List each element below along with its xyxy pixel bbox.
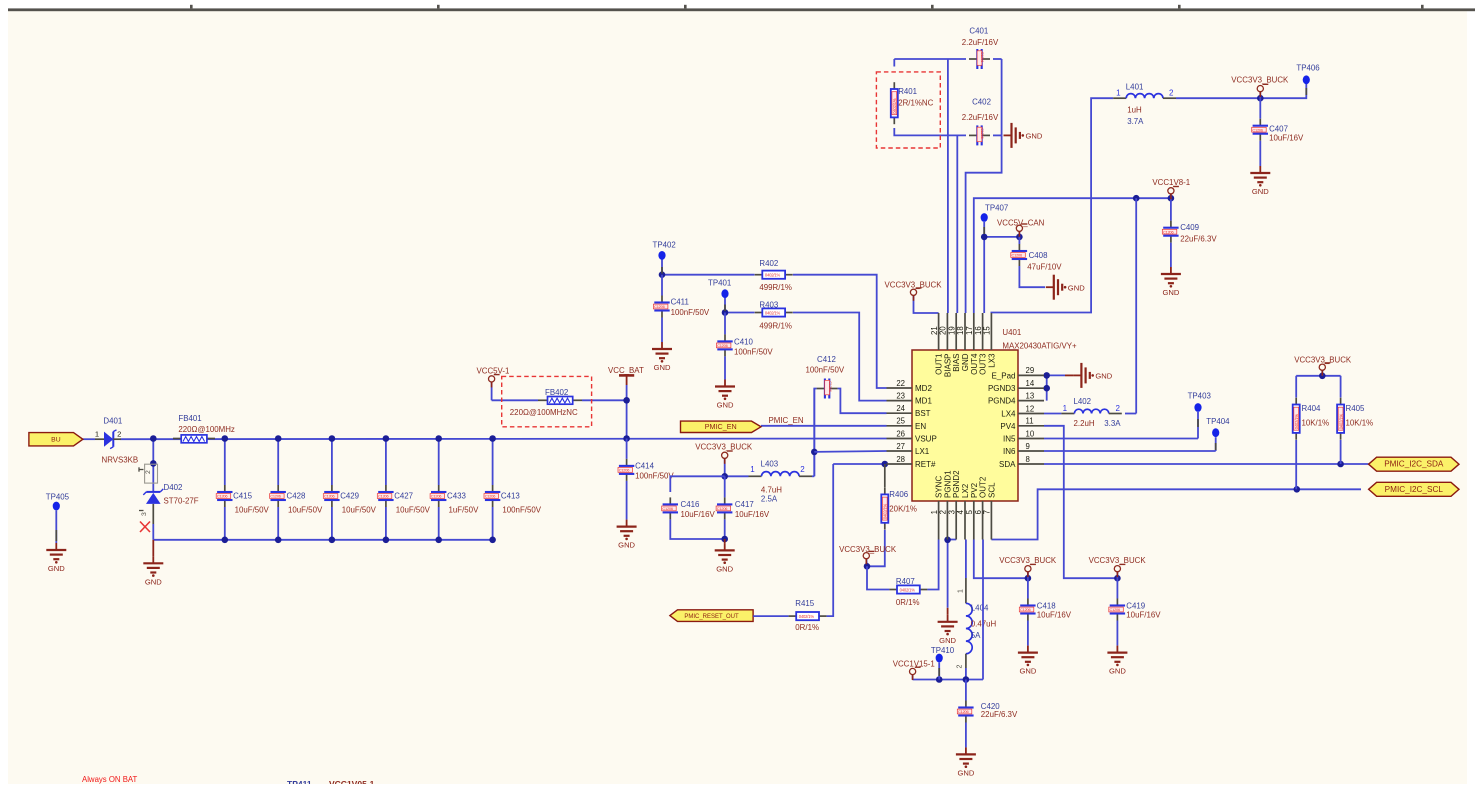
svg-text:C1206: C1206 [717,343,728,348]
svg-text:1: 1 [958,589,965,593]
svg-text:C1206: C1206 [378,494,389,499]
svg-text:1uH: 1uH [1127,105,1142,114]
svg-text:C428: C428 [287,492,306,501]
svg-text:SYNC: SYNC [935,476,944,498]
svg-text:NRVS3KB: NRVS3KB [102,456,139,465]
svg-text:TP406: TP406 [1296,64,1320,73]
svg-text:2: 2 [1115,404,1120,413]
svg-text:R406: R406 [889,490,908,499]
svg-text:24: 24 [896,404,905,413]
svg-text:1: 1 [95,430,99,439]
svg-text:3.7A: 3.7A [1127,117,1144,126]
svg-text:L402: L402 [1074,397,1092,406]
svg-text:TP403: TP403 [1188,392,1212,401]
svg-text:11: 11 [1026,417,1034,426]
svg-text:R407: R407 [896,577,915,586]
svg-text:D402: D402 [164,483,183,492]
svg-text:2.2uF/16V: 2.2uF/16V [962,38,999,47]
svg-text:C1206: C1206 [1012,253,1023,258]
svg-text:1: 1 [930,510,939,514]
svg-text:C1206: C1206 [485,494,496,499]
svg-text:20: 20 [939,326,948,335]
svg-text:C402: C402 [972,98,991,107]
svg-text:10K/1%: 10K/1% [1346,418,1374,427]
svg-text:1: 1 [1116,89,1121,98]
svg-text:1: 1 [1063,404,1068,413]
svg-text:U401: U401 [1002,328,1021,337]
svg-text:GND: GND [957,768,974,777]
svg-text:3: 3 [947,510,956,514]
svg-text:C1206: C1206 [431,494,442,499]
svg-text:10: 10 [1026,429,1035,438]
svg-text:C407: C407 [1269,125,1288,134]
svg-text:10uF/50V: 10uF/50V [288,506,323,515]
svg-text:2: 2 [939,510,948,514]
svg-text:PGND1: PGND1 [943,470,952,498]
svg-text:PGND3: PGND3 [988,384,1016,393]
svg-text:2.5A: 2.5A [761,495,778,504]
svg-text:TP404: TP404 [1206,417,1230,426]
svg-text:PMIC_EN: PMIC_EN [705,422,737,431]
svg-text:10uF/50V: 10uF/50V [396,506,431,515]
svg-text:19: 19 [947,326,956,335]
svg-text:VCC3V3_BUCK: VCC3V3_BUCK [1231,75,1289,84]
svg-text:GND: GND [717,401,734,410]
svg-text:7: 7 [983,510,992,514]
svg-text:25: 25 [896,417,905,426]
svg-text:OUT4: OUT4 [970,353,979,375]
svg-text:1uF/50V: 1uF/50V [449,506,480,515]
svg-text:VSUP: VSUP [915,435,937,444]
svg-text:VCC5V-1: VCC5V-1 [477,366,510,375]
svg-text:1: 1 [750,465,755,474]
svg-text:R403: R403 [759,301,778,310]
svg-text:IN5: IN5 [1003,435,1016,444]
svg-text:VCC1V8-1: VCC1V8-1 [1152,178,1190,187]
svg-text:10uF/16V: 10uF/16V [1269,133,1304,142]
svg-text:C1206: C1206 [717,506,728,511]
svg-text:BU: BU [51,437,61,444]
svg-text:29: 29 [1026,366,1035,375]
svg-text:VCC3V3_BUCK: VCC3V3_BUCK [885,281,943,290]
svg-text:MAX20430ATIG/VY+: MAX20430ATIG/VY+ [1002,341,1077,350]
svg-text:IN6: IN6 [1003,447,1016,456]
svg-text:C427: C427 [394,492,413,501]
svg-text:10K/1%: 10K/1% [1302,418,1330,427]
svg-text:FB402: FB402 [545,388,568,397]
svg-text:C429: C429 [340,492,359,501]
svg-text:5: 5 [965,509,974,514]
svg-text:C1206: C1206 [619,468,630,473]
svg-text:GND: GND [1252,187,1269,196]
svg-text:C417: C417 [735,500,754,509]
svg-text:C401: C401 [969,27,988,36]
svg-text:GND: GND [1026,132,1043,141]
svg-text:PGND2: PGND2 [952,470,961,498]
svg-text:R404: R404 [1302,404,1321,413]
svg-text:2.2uF/16V: 2.2uF/16V [962,113,999,122]
svg-text:10uF/16V: 10uF/16V [681,510,716,519]
svg-text:GND: GND [961,353,970,371]
svg-text:C415: C415 [233,492,252,501]
svg-text:C1206: C1206 [654,304,665,309]
svg-text:BST: BST [915,409,931,418]
svg-text:3: 3 [141,512,148,516]
svg-text:C414: C414 [635,461,654,470]
svg-text:12: 12 [1026,404,1035,413]
svg-text:0402/1%: 0402/1% [892,98,897,114]
svg-text:LX3: LX3 [987,353,996,368]
svg-text:2.2uH: 2.2uH [1074,419,1095,428]
svg-text:5A: 5A [971,631,981,640]
svg-text:GND: GND [654,363,671,372]
svg-text:C408: C408 [1029,251,1048,260]
svg-text:SDA: SDA [999,460,1016,469]
svg-text:499R/1%: 499R/1% [759,321,791,330]
svg-text:VCC_BAT: VCC_BAT [608,366,644,375]
svg-text:2: 2 [800,465,805,474]
svg-text:EN: EN [915,422,926,431]
svg-text:C411: C411 [671,298,689,307]
svg-text:GND: GND [48,564,65,573]
svg-text:0402/1%: 0402/1% [883,503,888,519]
svg-text:22uF/6.3V: 22uF/6.3V [1180,234,1217,243]
svg-text:R405: R405 [1346,404,1365,413]
svg-text:2R/1%NC: 2R/1%NC [898,99,933,108]
svg-text:OUT1: OUT1 [935,353,944,375]
svg-text:GND: GND [1095,372,1112,381]
svg-text:C1206: C1206 [1163,229,1174,234]
svg-text:C416: C416 [681,500,700,509]
svg-text:C433: C433 [447,492,466,501]
svg-text:TP402: TP402 [653,241,676,250]
svg-text:TP410: TP410 [931,646,955,655]
svg-text:0402/1%: 0402/1% [1294,414,1299,430]
svg-text:C1206: C1206 [1110,607,1121,612]
svg-text:220Ω@100MHzNC: 220Ω@100MHzNC [510,408,578,417]
svg-text:BIAS: BIAS [952,354,961,372]
svg-text:18: 18 [956,326,965,335]
svg-text:BIASP: BIASP [943,354,952,378]
svg-text:47uF/10V: 47uF/10V [1027,263,1062,272]
svg-text:2: 2 [957,665,964,669]
svg-text:10uF/16V: 10uF/16V [1126,611,1161,620]
svg-text:PMIC_I2C_SCL: PMIC_I2C_SCL [1385,485,1444,494]
svg-text:C1206: C1206 [980,128,985,139]
svg-text:220Ω@100MHz: 220Ω@100MHz [178,425,235,434]
svg-text:4: 4 [956,509,965,514]
svg-text:10uF/50V: 10uF/50V [342,506,377,515]
svg-text:LX2: LX2 [961,483,970,498]
svg-text:MD1: MD1 [915,397,932,406]
svg-text:MD2: MD2 [915,384,932,393]
svg-text:VCC3V3_BUCK: VCC3V3_BUCK [695,442,753,451]
svg-text:TP405: TP405 [46,492,70,501]
svg-text:LX1: LX1 [915,447,930,456]
svg-text:100nF/50V: 100nF/50V [671,308,710,317]
svg-text:21: 21 [930,326,939,335]
svg-text:LX4: LX4 [1001,410,1016,419]
svg-text:ST70-27F: ST70-27F [164,497,199,506]
svg-text:VCC3V3_BUCK: VCC3V3_BUCK [999,556,1057,565]
svg-text:GND: GND [145,577,162,586]
svg-text:RET#: RET# [915,460,936,469]
svg-text:2: 2 [1169,89,1174,98]
svg-text:R402: R402 [759,259,778,268]
svg-text:C1206: C1206 [662,506,673,511]
svg-text:26: 26 [896,429,905,438]
svg-text:0R/1%: 0R/1% [896,598,920,607]
svg-text:GND: GND [1162,288,1179,297]
svg-text:E_Pad: E_Pad [991,371,1015,380]
svg-text:2: 2 [145,470,152,474]
svg-text:C1206: C1206 [1020,607,1031,612]
svg-text:9: 9 [1026,442,1030,451]
svg-text:14: 14 [1026,379,1035,388]
svg-text:C412: C412 [817,355,836,364]
svg-text:TP407: TP407 [985,204,1008,213]
svg-text:R401: R401 [898,87,917,96]
svg-text:C409: C409 [1180,223,1199,232]
svg-text:28: 28 [896,455,905,464]
svg-text:22: 22 [896,379,905,388]
svg-text:6: 6 [974,510,983,514]
svg-text:L401: L401 [1126,82,1144,91]
svg-text:0402/1%: 0402/1% [1338,414,1343,430]
svg-text:L403: L403 [761,460,779,469]
svg-text:100nF/50V: 100nF/50V [502,506,541,515]
svg-text:VCC1V15-1: VCC1V15-1 [893,659,935,668]
svg-text:15: 15 [983,326,992,335]
svg-text:0402/1%: 0402/1% [765,273,781,278]
svg-text:0402/1%: 0402/1% [799,614,815,619]
svg-text:FB401: FB401 [178,414,201,423]
svg-text:C1206: C1206 [958,709,969,714]
svg-text:GND: GND [1068,283,1085,292]
svg-text:10uF/16V: 10uF/16V [735,510,770,519]
svg-text:27: 27 [896,442,905,451]
svg-text:C1206: C1206 [270,494,281,499]
svg-text:3.3A: 3.3A [1104,419,1121,428]
svg-text:TP401: TP401 [708,278,731,287]
svg-text:GND: GND [1109,667,1126,676]
svg-text:C418: C418 [1037,602,1056,611]
svg-text:0402/1%: 0402/1% [900,587,916,592]
svg-text:Always ON BAT: Always ON BAT [82,775,138,784]
svg-text:100nF/50V: 100nF/50V [806,366,845,375]
svg-text:L404: L404 [971,603,989,612]
svg-text:C1206: C1206 [324,494,335,499]
svg-text:GND: GND [939,636,956,645]
svg-text:8: 8 [1026,455,1030,464]
svg-text:C413: C413 [501,492,520,501]
svg-text:PMIC_I2C_SDA: PMIC_I2C_SDA [1384,460,1444,469]
svg-text:10uF/50V: 10uF/50V [235,506,270,515]
svg-text:OUT2: OUT2 [979,476,988,498]
svg-text:22uF/6.3V: 22uF/6.3V [981,710,1018,719]
svg-text:23: 23 [896,391,905,400]
svg-text:C419: C419 [1126,602,1145,611]
svg-text:C410: C410 [734,337,753,346]
svg-text:C1206: C1206 [980,52,985,63]
svg-text:4.7uH: 4.7uH [761,485,782,494]
svg-text:100nF/50V: 100nF/50V [734,348,773,357]
svg-text:C1206: C1206 [1252,127,1263,132]
svg-text:OUT3: OUT3 [979,353,988,375]
svg-text:SCL: SCL [987,482,996,498]
svg-text:20K/1%: 20K/1% [889,504,917,513]
svg-text:C1206: C1206 [217,494,228,499]
svg-text:PMIC_RESET_OUT: PMIC_RESET_OUT [684,614,739,620]
svg-text:PV4: PV4 [1000,422,1016,431]
svg-text:C1206: C1206 [828,381,833,392]
svg-text:PGND4: PGND4 [988,397,1016,406]
svg-text:499R/1%: 499R/1% [759,283,791,292]
svg-text:2: 2 [117,430,121,439]
svg-text:0R/1%: 0R/1% [795,623,819,632]
svg-text:17: 17 [965,326,974,335]
svg-text:PV2: PV2 [970,482,979,498]
svg-text:PMIC_EN: PMIC_EN [769,416,804,425]
svg-text:13: 13 [1026,391,1035,400]
svg-text:D401: D401 [103,416,122,425]
svg-text:R415: R415 [795,599,814,608]
svg-text:VCC3V3_BUCK: VCC3V3_BUCK [1089,556,1147,565]
svg-text:GND: GND [618,541,635,550]
svg-text:GND: GND [716,564,733,573]
svg-text:100nF/50V: 100nF/50V [635,472,674,481]
svg-text:VCC3V3_BUCK: VCC3V3_BUCK [1294,356,1352,365]
svg-text:16: 16 [974,326,983,335]
svg-text:0402/1%: 0402/1% [765,310,781,315]
svg-text:10uF/16V: 10uF/16V [1037,611,1072,620]
svg-text:GND: GND [1019,667,1036,676]
